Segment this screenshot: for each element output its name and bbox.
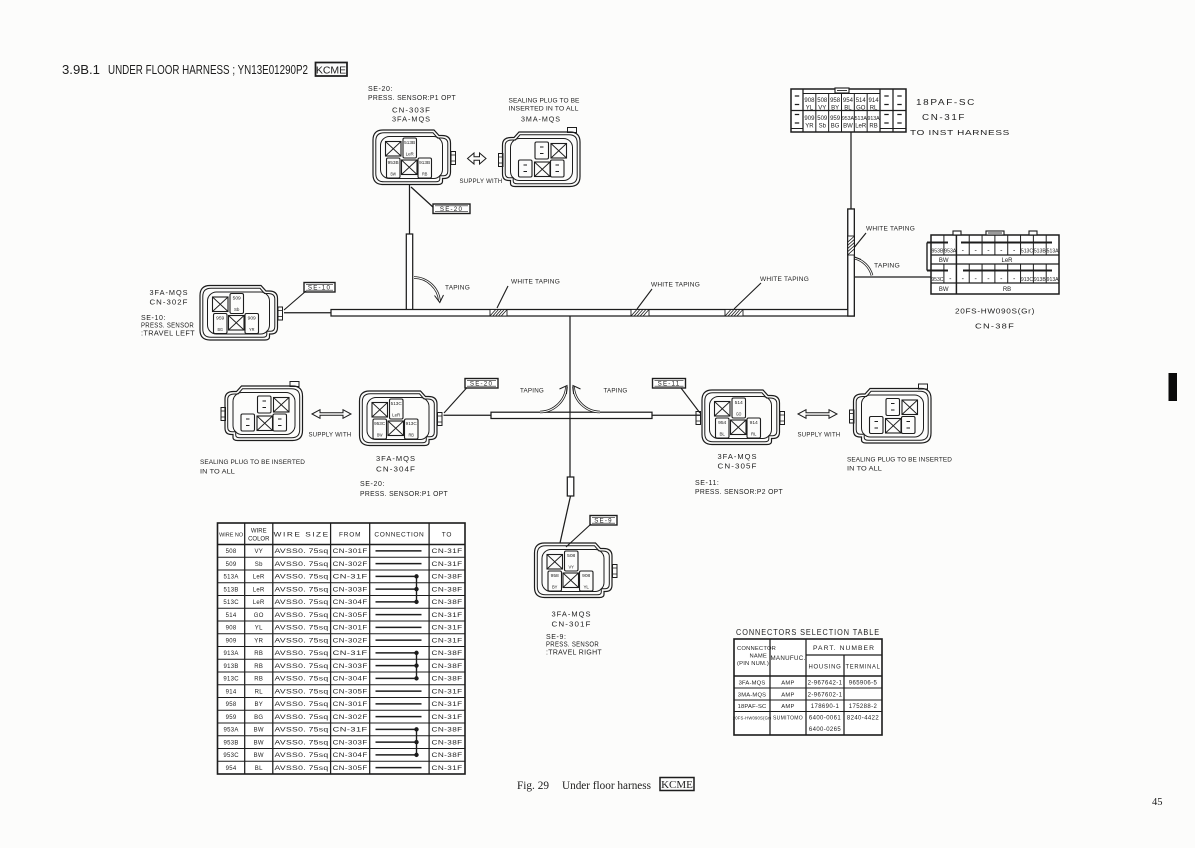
svg-text:AVSS0. 75sq: AVSS0. 75sq [275,689,329,695]
svg-text:909: 909 [804,116,815,122]
svg-text:CN-38F: CN-38F [432,664,463,670]
latch tabs CN-38F [953,231,961,235]
svg-text:CN-38F: CN-38F [975,322,1015,331]
svg-text:CN-31F: CN-31F [333,575,368,581]
svg-text:BW: BW [254,753,264,759]
svg-text:RB: RB [254,677,263,683]
svg-text:CN-303F: CN-303F [333,664,368,670]
svg-text:SE-11:: SE-11: [695,480,719,487]
svg-text:BG: BG [831,124,840,130]
leader SE-10 [284,291,306,310]
svg-text:IN TO ALL: IN TO ALL [847,466,882,473]
svg-text:CN-304F: CN-304F [376,465,416,474]
svg-text:WIRE: WIRE [251,529,267,535]
svg-text:YR: YR [254,638,263,644]
svg-text:3FA-MQS: 3FA-MQS [739,681,766,687]
svg-text:SE-11: SE-11 [658,381,681,388]
svg-text:908: 908 [582,573,591,578]
svg-text:18PAF-SC: 18PAF-SC [738,704,767,710]
svg-text:BY: BY [254,702,263,708]
svg-text:514: 514 [226,613,237,619]
sealing plug right [850,384,932,443]
svg-text:CN-301F: CN-301F [333,549,368,555]
svg-text:RB: RB [1003,287,1011,293]
svg-text:CN-38F: CN-38F [432,651,463,657]
svg-text:AVSS0. 75sq: AVSS0. 75sq [275,638,329,644]
leader SE-11 [681,388,700,413]
svg-text:SEALING PLUG TO BE: SEALING PLUG TO BE [509,98,580,105]
svg-text:CN-31F: CN-31F [432,715,463,721]
connector 20FS-HW090S CN-38F pin table [931,235,1059,294]
svg-text:BW: BW [939,287,949,293]
svg-text:965906-5: 965906-5 [849,681,878,687]
svg-text:AVSS0. 75sq: AVSS0. 75sq [275,753,329,759]
svg-text:954: 954 [718,420,727,425]
svg-text:909: 909 [226,638,237,644]
svg-text:BW: BW [843,124,853,130]
svg-text:514: 514 [856,98,867,104]
white taping hatch on tube [848,236,855,255]
connector CN-304F (3FA-MQS) [360,391,443,446]
svg-text:953A: 953A [223,728,238,734]
taped tube to SE-9 [567,477,574,496]
svg-text:FROM: FROM [339,532,361,539]
svg-text:RB: RB [254,651,263,657]
svg-text:CN-38F: CN-38F [432,575,463,581]
svg-text:908: 908 [226,626,237,632]
svg-text:SUPPLY WITH: SUPPLY WITH [460,178,503,185]
svg-text:VY: VY [568,565,574,570]
svg-text:18PAF-SC: 18PAF-SC [916,98,976,107]
svg-text:AMP: AMP [781,704,794,710]
svg-text:SE-20: SE-20 [440,206,463,213]
svg-text:CN-31F: CN-31F [922,113,966,122]
black edge mark [1169,373,1178,401]
leader SE-9 [566,524,591,547]
svg-text:CN-303F: CN-303F [392,106,431,115]
svg-text:509: 509 [233,296,242,301]
svg-text:BG: BG [254,715,263,721]
svg-text:TAPING: TAPING [874,263,900,270]
taped tube right [848,209,855,316]
svg-text:RL: RL [870,106,878,112]
svg-text:VY: VY [254,549,263,555]
svg-text:TERMINAL: TERMINAL [846,664,881,671]
svg-text:AVSS0. 75sq: AVSS0. 75sq [275,651,329,657]
svg-text:RB: RB [422,172,428,177]
svg-text:RB: RB [254,664,263,670]
svg-text:BW: BW [390,172,396,177]
wire from CN-31F down [850,132,852,209]
connector CN-303F (3FA-MQS) [373,130,456,185]
svg-text:913A: 913A [1047,277,1059,283]
svg-text:CN-38F: CN-38F [432,677,463,683]
svg-text:514: 514 [735,400,744,405]
svg-text:20FS-HW090S(Gr): 20FS-HW090S(Gr) [733,716,772,721]
svg-text:513B: 513B [223,587,238,593]
svg-text:CN-302F: CN-302F [333,638,368,644]
svg-text:CN-31F: CN-31F [432,766,463,772]
svg-text:953B: 953B [931,249,943,255]
svg-text:CN-302F: CN-302F [150,298,189,307]
svg-text:908: 908 [804,98,815,104]
svg-text:SUPPLY WITH: SUPPLY WITH [798,432,841,439]
svg-text:3FA-MQS: 3FA-MQS [150,288,189,297]
latch notch [835,88,849,93]
svg-text:BY: BY [831,106,839,112]
svg-text:KCME: KCME [661,779,693,791]
svg-text:LeR: LeR [392,413,401,418]
svg-text:CN-305F: CN-305F [333,689,368,695]
svg-text:LeR: LeR [253,600,265,606]
svg-text:Sb: Sb [819,124,827,130]
branch wire to CN-38F [854,276,931,278]
main harness bus [331,310,854,317]
svg-text:AVSS0. 75sq: AVSS0. 75sq [275,613,329,619]
svg-text:CONNECTOR: CONNECTOR [737,646,776,652]
svg-text:WHITE TAPING: WHITE TAPING [760,276,809,283]
svg-text:913B: 913B [1034,277,1046,283]
svg-text:BG: BG [217,327,223,332]
svg-text:SE-20:: SE-20: [360,481,385,488]
svg-text:CN-31F: CN-31F [432,549,463,555]
svg-text:CN-38F: CN-38F [432,587,463,593]
svg-text:PART. NUMBER: PART. NUMBER [813,645,875,652]
svg-text:CN-303F: CN-303F [333,740,368,746]
boxed label SE-11 [653,379,686,389]
svg-text:513C: 513C [391,401,403,406]
svg-text:2-967642-1: 2-967642-1 [808,681,843,687]
svg-text:CN-31F: CN-31F [432,702,463,708]
svg-text:513C: 513C [223,600,239,606]
internal bus lines [961,242,1052,244]
connector CN-301F (3FA-MQS) [535,543,618,598]
svg-text:BL: BL [844,106,852,112]
tube overlap redraw [848,209,855,316]
taped tube segment top [406,234,412,311]
svg-text:CN-31F: CN-31F [432,626,463,632]
svg-text:914: 914 [226,689,237,695]
svg-text:WIRE NO: WIRE NO [219,533,244,539]
svg-text:AVSS0. 75sq: AVSS0. 75sq [275,587,329,593]
svg-text:958: 958 [551,573,560,578]
svg-text:BW: BW [254,728,264,734]
connector 18PAF-SC CN-31F pin table [791,89,906,132]
svg-text:953C: 953C [374,421,386,426]
leader SE-20 mid [444,388,467,414]
svg-text:509: 509 [226,562,237,568]
svg-text:WHITE TAPING: WHITE TAPING [511,279,560,286]
svg-text:953A: 953A [842,116,855,122]
svg-text:958: 958 [226,702,237,708]
svg-text:VY: VY [818,106,826,112]
svg-text:SE-20:: SE-20: [368,86,393,93]
svg-text:909: 909 [248,316,257,321]
svg-text:8240-4422: 8240-4422 [847,716,880,722]
svg-text::TRAVEL RIGHT: :TRAVEL RIGHT [546,650,602,657]
svg-text:CN-301F: CN-301F [333,626,368,632]
boxed label SE-9 [590,516,617,526]
supply arrow top [468,153,487,164]
svg-text:3MA-MQS: 3MA-MQS [738,693,766,699]
svg-text:CN-305F: CN-305F [333,766,368,772]
svg-text:INSERTED IN TO ALL: INSERTED IN TO ALL [509,105,579,112]
svg-text:913B: 913B [419,160,430,165]
svg-text:913A: 913A [868,116,881,122]
svg-text:914: 914 [869,98,880,104]
title KCME box [316,63,348,77]
svg-text:509: 509 [817,116,828,122]
leader to SE-20 box [411,187,434,208]
svg-text:BL: BL [255,766,263,772]
svg-text:954: 954 [226,766,237,772]
svg-text:SE-9:: SE-9: [546,634,567,641]
svg-text:3MA-MQS: 3MA-MQS [521,114,561,123]
svg-text:AVSS0. 75sq: AVSS0. 75sq [275,702,329,708]
svg-text:RL: RL [255,689,264,695]
svg-text:BW: BW [377,433,383,438]
wire lower bus to CN-305F [652,414,700,416]
svg-text:AVSS0. 75sq: AVSS0. 75sq [275,766,329,772]
svg-text:PRESS. SENSOR: PRESS. SENSOR [141,323,194,330]
svg-text:3FA-MQS: 3FA-MQS [552,610,592,619]
vertical wire through cross [569,316,571,413]
svg-text:953C: 953C [931,277,943,283]
connector CN-305F (3FA-MQS) with left tab [696,390,785,445]
svg-text:UNDER FLOOR HARNESS ; YN13E012: UNDER FLOOR HARNESS ; YN13E01290P2 [108,62,308,77]
svg-text:CN-304F: CN-304F [333,600,368,606]
svg-text:CN-31F: CN-31F [333,728,368,734]
svg-text:913C: 913C [1021,277,1033,283]
svg-text:KCME: KCME [316,65,346,77]
svg-text:BL: BL [719,432,725,437]
svg-text:WIRE SIZE: WIRE SIZE [274,532,330,539]
svg-text:AVSS0. 75sq: AVSS0. 75sq [275,728,329,734]
wire list table [218,523,466,774]
wire from CN-303F down [409,185,411,234]
svg-text:BW: BW [939,258,949,264]
svg-text:CONNECTION: CONNECTION [374,532,424,539]
svg-text:AVSS0. 75sq: AVSS0. 75sq [275,715,329,721]
svg-text:513B: 513B [404,140,415,145]
svg-text:LeR: LeR [1001,258,1013,264]
svg-text:CN-302F: CN-302F [333,562,368,568]
svg-text:513A: 513A [855,116,868,122]
svg-text:CONNECTORS SELECTION TABLE: CONNECTORS SELECTION TABLE [736,627,880,637]
svg-text:3.9B.1: 3.9B.1 [62,62,100,77]
svg-text:175288-2: 175288-2 [849,704,878,710]
svg-text:AMP: AMP [781,693,794,699]
svg-text:508: 508 [567,553,576,558]
svg-text:20FS-HW090S(Gr): 20FS-HW090S(Gr) [955,307,1035,316]
svg-text:959: 959 [216,316,225,321]
svg-text:BY: BY [552,585,558,590]
svg-text:913B: 913B [223,664,238,670]
svg-text:SEALING PLUG TO BE INSERTED: SEALING PLUG TO BE INSERTED [200,459,305,466]
svg-text:CN-302F: CN-302F [333,715,368,721]
svg-text:953B: 953B [223,740,238,746]
svg-text:954: 954 [843,98,854,104]
svg-text:NAME: NAME [749,654,767,660]
caption KCME box [660,778,694,791]
svg-text:959: 959 [830,116,841,122]
svg-text:SUPPLY WITH: SUPPLY WITH [309,432,352,439]
svg-text:LeR: LeR [253,587,265,593]
boxed label SE-20 [433,204,470,214]
svg-text:GO: GO [736,412,742,417]
supply arrow mid-left [312,410,351,419]
svg-text:2-967602-1: 2-967602-1 [808,693,843,699]
svg-text:CN-38F: CN-38F [432,600,463,606]
svg-text:PRESS. SENSOR:P2 OPT: PRESS. SENSOR:P2 OPT [695,489,783,496]
svg-text:YL: YL [806,106,814,112]
svg-text:AVSS0. 75sq: AVSS0. 75sq [275,626,329,632]
svg-text:CN-304F: CN-304F [333,677,368,683]
svg-text:CN-31F: CN-31F [432,689,463,695]
svg-text:GO: GO [254,613,264,619]
supply arrow right [798,410,837,419]
taping hatches on bus [490,310,507,317]
svg-text:GO: GO [856,106,866,112]
svg-text:MANUFUC.: MANUFUC. [770,655,805,662]
svg-text:SUMITOMO: SUMITOMO [773,716,803,722]
svg-text:953A: 953A [944,249,956,255]
svg-text:953B: 953B [388,160,399,165]
svg-text:6400-0061: 6400-0061 [809,716,842,722]
svg-text:WHITE TAPING: WHITE TAPING [866,226,915,233]
svg-text:CN-31F: CN-31F [432,613,463,619]
svg-text:LeR: LeR [253,575,265,581]
svg-text:CN-31F: CN-31F [432,638,463,644]
svg-text:914: 914 [750,420,759,425]
svg-text:508: 508 [817,98,828,104]
svg-text:513A: 513A [1047,249,1059,255]
svg-text:AVSS0. 75sq: AVSS0. 75sq [275,549,329,555]
svg-text:CN-31F: CN-31F [333,651,368,657]
boxed label SE-20 mid [465,379,498,389]
svg-text:AVSS0. 75sq: AVSS0. 75sq [275,575,329,581]
svg-text:PRESS. SENSOR:P1 OPT: PRESS. SENSOR:P1 OPT [360,491,448,498]
svg-text:RL: RL [751,432,757,437]
svg-text:Under floor harness: Under floor harness [562,778,651,792]
sealing plug left-middle [221,382,303,441]
svg-text:CN-305F: CN-305F [718,462,758,471]
svg-text:TO INST HARNESS: TO INST HARNESS [910,130,1010,137]
svg-text:513B: 513B [1034,249,1046,255]
wire tube to CN-301F [560,496,571,543]
svg-text:YL: YL [255,626,263,632]
svg-text:COLOR: COLOR [248,537,270,543]
svg-text:AVSS0. 75sq: AVSS0. 75sq [275,664,329,670]
svg-text:TAPING: TAPING [604,388,628,395]
svg-text:IN TO ALL: IN TO ALL [200,469,235,476]
svg-text:SE-20: SE-20 [470,381,493,388]
svg-text:Sb: Sb [255,562,263,568]
svg-text:LeR: LeR [406,152,415,157]
svg-text:Fig. 29: Fig. 29 [517,778,549,792]
svg-text:CN-304F: CN-304F [333,753,368,759]
svg-text:SE-9: SE-9 [594,518,613,525]
svg-text:959: 959 [226,715,237,721]
svg-text:RB: RB [869,124,877,130]
svg-text:RB: RB [408,433,414,438]
svg-text:YL: YL [583,585,589,590]
svg-text:AVSS0. 75sq: AVSS0. 75sq [275,740,329,746]
svg-text:913A: 913A [223,651,238,657]
connector CN-302F (3FA-MQS) [200,286,283,341]
svg-text:3FA-MQS: 3FA-MQS [376,454,416,463]
svg-text:913C: 913C [406,421,418,426]
svg-text:PRESS. SENSOR: PRESS. SENSOR [546,642,599,649]
svg-text:CN-301F: CN-301F [333,702,368,708]
lower harness bus [491,412,652,418]
svg-text:PRESS. SENSOR:P1 OPT: PRESS. SENSOR:P1 OPT [368,95,456,102]
svg-text:CN-38F: CN-38F [432,728,463,734]
svg-text:913C: 913C [223,677,239,683]
svg-text:HOUSING: HOUSING [809,664,842,671]
svg-text:YR: YR [249,327,255,332]
svg-text:(PIN NUM.): (PIN NUM.) [737,661,769,667]
svg-text:CN-38F: CN-38F [432,753,463,759]
svg-text:TAPING: TAPING [445,285,470,292]
svg-text:BW: BW [254,740,264,746]
svg-text:CN-305F: CN-305F [333,613,368,619]
svg-text:TO: TO [442,532,453,539]
svg-text:45: 45 [1152,797,1163,808]
svg-text:3FA-MQS: 3FA-MQS [392,115,431,124]
svg-text:LeR: LeR [855,124,867,130]
svg-text:AVSS0. 75sq: AVSS0. 75sq [275,600,329,606]
svg-text:508: 508 [226,549,237,555]
svg-text:AMP: AMP [781,681,794,687]
wire CN-304F to lower bus [444,414,492,416]
svg-text:CN-303F: CN-303F [333,587,368,593]
svg-text:CN-38F: CN-38F [432,740,463,746]
svg-text:178690-1: 178690-1 [811,704,840,710]
wire from CN-302F to bus [284,312,331,314]
svg-text:AVSS0. 75sq: AVSS0. 75sq [275,677,329,683]
svg-text:CN-301F: CN-301F [552,620,592,629]
svg-text:513C: 513C [1021,249,1033,255]
svg-text:SE-10:: SE-10: [141,315,166,322]
svg-text:CN-31F: CN-31F [432,562,463,568]
svg-text:Sb: Sb [234,307,240,312]
svg-text:6400-0265: 6400-0265 [809,727,842,733]
svg-text:TAPING: TAPING [520,388,544,395]
svg-text:3FA-MQS: 3FA-MQS [718,452,758,461]
svg-text:513A: 513A [223,575,238,581]
svg-text:WHITE TAPING: WHITE TAPING [651,282,700,289]
svg-text:SEALING PLUG TO BE INSERTED: SEALING PLUG TO BE INSERTED [847,457,952,464]
svg-text:SE-10: SE-10 [308,285,331,292]
bus bracket left [927,242,948,244]
svg-text:953C: 953C [223,753,239,759]
svg-text:YR: YR [805,124,814,130]
svg-text::TRAVEL LEFT: :TRAVEL LEFT [141,330,195,337]
svg-text:AVSS0. 75sq: AVSS0. 75sq [275,562,329,568]
boxed label SE-10 [304,283,335,293]
svg-text:958: 958 [830,98,841,104]
